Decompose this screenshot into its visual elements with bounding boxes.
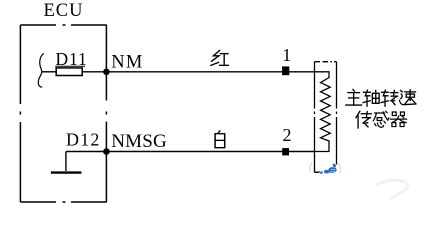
watermark gray wisp left [310,163,313,173]
resistor D11 [56,68,82,76]
ECU enclosure box (dash-dot chain) [20,25,106,202]
sensor enclosure box (dash-dot chain) [315,62,337,173]
svg-text:ECU: ECU [44,1,84,21]
sensor label 主轴转速 / 传感器 [346,89,362,105]
svg-text:NM: NM [111,52,143,72]
ground (ECU internal) [65,152,67,172]
svg-text:NMSG: NMSG [111,131,167,152]
svg-text:D12: D12 [66,129,101,149]
sensor pickup coil [315,72,331,152]
wire: resistor to node NM [82,71,106,73]
wire label 红 (red) [211,50,229,65]
wire NM: node to sensor box [106,71,314,73]
watermark gray wisp right [338,164,341,174]
node NM junction dot [103,69,110,76]
pin 2 connector square [282,148,289,155]
svg-text:2: 2 [283,125,292,145]
watermark white splash (over sensor box bottom) [317,164,344,177]
sensor box bottom-left corner piece [315,171,320,173]
wire break squiggle (interrupted lead into ECU) [38,53,44,87]
wire: ground to node NMSG [66,151,107,153]
faint watermark swirl [376,180,405,185]
watermark blue fragment upper right [333,164,337,168]
svg-text:1: 1 [282,45,291,65]
watermark blue fragment middle [324,170,329,174]
watermark blue fragment left tick [319,170,323,174]
pin 1 connector square [282,66,289,75]
node NMSG junction dot [103,148,110,155]
wire: squiggle to resistor D11 [42,71,57,73]
watermark blue fragment right patch [328,167,336,173]
wire NMSG: node to sensor box [106,151,314,153]
wire label 白 (white) [215,131,225,148]
